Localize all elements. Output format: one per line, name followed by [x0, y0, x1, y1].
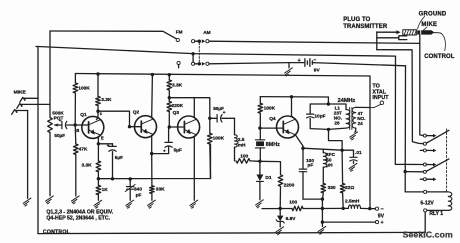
label E [101, 135, 104, 140]
switch K1a top contact [423, 134, 436, 138]
wire Q3 emitter to ground [194, 135, 196, 200]
svg-text:MIKE: MIKE [14, 90, 27, 96]
svg-text:PLUG TO: PLUG TO [343, 17, 370, 23]
switch S1a FM contact [176, 38, 179, 41]
node rail/Q2 collector [151, 73, 154, 76]
svg-text:pF: pF [136, 192, 142, 198]
label FM [176, 29, 183, 34]
label 24MHz [338, 98, 356, 104]
svg-text:9V: 9V [314, 68, 321, 74]
wire tank bottom jog [329, 129, 343, 150]
svg-text:Q1,2,3 - 2N404A OR EQUIV.: Q1,2,3 - 2N404A OR EQUIV. [46, 209, 113, 215]
wire 100pF to ground bus [303, 198, 322, 200]
node RFC junction [340, 149, 343, 152]
node Q1 emitter/5uF [97, 142, 100, 145]
label 6-12V [420, 200, 434, 206]
node row/5uF [111, 177, 114, 180]
svg-text:10pF: 10pF [314, 114, 325, 120]
svg-text:2.5mH: 2.5mH [345, 199, 360, 205]
svg-text:330: 330 [328, 185, 336, 191]
wire crystal node to 2200 [260, 161, 281, 175]
ground (33K) [148, 200, 156, 208]
wire jack row y46 [36, 47, 396, 57]
label Q1 [80, 112, 87, 118]
svg-text:3.3K: 3.3K [172, 83, 183, 89]
svg-text:24MHz: 24MHz [338, 98, 356, 104]
svg-text:22Ω: 22Ω [345, 185, 354, 191]
svg-text:220K: 220K [172, 103, 184, 109]
svg-text:CONTROL: CONTROL [43, 229, 71, 235]
wire S1a output (row A) [209, 41, 420, 43]
label MIKE [14, 90, 27, 96]
svg-text:50: 50 [326, 157, 332, 162]
wire plug tip tail [434, 32, 441, 35]
svg-text:.01: .01 [355, 150, 362, 156]
label c [100, 111, 103, 116]
mike jack hook contact 3 [12, 110, 28, 115]
wire Q1 base lead [75, 124, 88, 126]
node Q1 base [74, 123, 77, 126]
resistor 100K (Q4 base bias) [258, 97, 263, 129]
capacitor .01 (bypass) [342, 150, 357, 163]
leader CONTROL [441, 33, 445, 50]
svg-text:RFC: RFC [325, 152, 335, 157]
svg-text:c: c [100, 111, 103, 116]
node Q1 collector [96, 110, 99, 113]
svg-text:47K: 47K [79, 147, 88, 153]
capacitor 340pF [125, 179, 142, 200]
node tank bottom [327, 128, 330, 131]
svg-text:33K: 33K [156, 187, 165, 193]
label - (battery) [313, 57, 316, 63]
svg-text:1K: 1K [102, 187, 109, 193]
svg-text:GROUND: GROUND [419, 11, 447, 17]
svg-text:–: – [381, 207, 384, 213]
svg-text:RLY 1: RLY 1 [429, 211, 443, 217]
svg-text:Q2: Q2 [133, 109, 140, 115]
pot wiper arrow [54, 123, 61, 126]
ground (Q3 emitter) [190, 200, 198, 208]
node rail/3.3K Q1 [96, 72, 99, 75]
watermark SeekIC.com [403, 230, 453, 240]
potentiometer R1 500K [48, 118, 53, 196]
svg-text:TRANSMITTER: TRANSMITTER [343, 24, 388, 30]
plug prong riser [376, 32, 378, 50]
label 47K [79, 147, 88, 153]
node battery drop/pivot2 [404, 170, 407, 173]
svg-text:6-12V: 6-12V [420, 200, 434, 206]
switch K1b pivot+arm [423, 159, 449, 173]
label CONTROL (plug) [424, 54, 455, 60]
resistor 100K (Q1 base bias) [73, 74, 78, 126]
svg-text:Q4-HEP 52, 2N3644 , ETC.: Q4-HEP 52, 2N3644 , ETC. [46, 216, 110, 222]
resistor 22 ohm [340, 150, 345, 208]
label 33K [156, 187, 165, 193]
wire battery drop x405 [404, 66, 406, 192]
resistor 100K (Q3 output load) [208, 118, 213, 178]
svg-text:–: – [313, 57, 316, 63]
node Q4 base/crystal [258, 126, 261, 129]
ground (D1) [256, 200, 264, 208]
label GROUND [419, 11, 447, 17]
node row/Q1 emitter [97, 177, 100, 180]
label RLY 1 [429, 211, 443, 217]
svg-text:6.8V: 6.8V [286, 216, 297, 222]
wire to pivot2 [405, 171, 423, 173]
node crystal/100 [258, 160, 261, 163]
inductor RFC 50uH [323, 149, 327, 183]
wire Q1 collector to Q2 base [98, 111, 130, 127]
label MIKE (plug) [421, 22, 437, 28]
label 100K (Q4) [264, 106, 276, 112]
crystal Y1 8MHz [255, 128, 264, 161]
resistor 47K (Q1 base to gnd) [74, 125, 79, 196]
svg-text:9V: 9V [378, 214, 385, 220]
transformer core [350, 108, 352, 130]
wire Q4 collector rail [260, 96, 328, 98]
capacitor C5 50uF (Q3 output coupling) [210, 106, 235, 122]
label D1 [265, 175, 271, 181]
plug ring segment [417, 30, 420, 34]
resistor 1K [96, 179, 101, 201]
wire Q2 emitter lead [152, 134, 154, 153]
svg-text:2.5: 2.5 [238, 137, 245, 143]
switch K1a pivot+arm [423, 130, 449, 145]
label 3.3K (Q3) [172, 83, 183, 89]
wire relay top [405, 190, 444, 193]
capacitor C4 5uF (Q2-Q3 coupling) [152, 127, 182, 154]
wire Q3 collector up [194, 98, 196, 120]
wire control bus along bottom [38, 232, 425, 233]
svg-text:100: 100 [240, 154, 248, 160]
switch gang link (dashed) [198, 43, 200, 62]
wire Q1 emitter lead [98, 135, 100, 144]
wire FM line y31 [50, 31, 177, 39]
node Q2 emitter [150, 152, 153, 155]
label 330 [328, 185, 336, 191]
node 22ohm/output row [342, 207, 345, 210]
switch K1b top contact [423, 163, 436, 167]
resistor 220K (Q3 feedback bias) [167, 98, 172, 127]
wire emitter ground row [262, 208, 292, 210]
svg-text:E: E [101, 135, 104, 140]
resistor 3.3K (Q1 collector load) [96, 74, 101, 111]
label + (battery) [298, 58, 301, 64]
resistor 3.3K (Q3 collector load) [167, 75, 172, 98]
wire Q4 emitter to RFC node [295, 135, 303, 148]
svg-text:Q3: Q3 [173, 110, 180, 116]
svg-text:8MHz: 8MHz [266, 142, 280, 148]
switch S1b FM contact [177, 61, 180, 67]
label Q3 [173, 110, 180, 116]
wire plug mike drop to pivot1 [377, 50, 424, 144]
transistor Q4 2N3644 [277, 116, 299, 138]
battery ground stub [288, 63, 290, 68]
label 2200 [284, 182, 295, 188]
svg-text:50μF: 50μF [213, 106, 224, 111]
label 2.5 mH [238, 137, 246, 149]
svg-text:B: B [76, 128, 79, 133]
switch S1a pole [192, 39, 209, 43]
svg-text:μH: μH [326, 163, 333, 168]
svg-text:SeekIC.com: SeekIC.com [403, 230, 453, 240]
svg-text:+: + [107, 143, 110, 148]
wire Q4 base lead [260, 127, 283, 129]
wire mike tip riser x50 [49, 31, 51, 118]
node jack row / S1b [191, 52, 194, 55]
svg-text:2200: 2200 [284, 182, 295, 188]
capacitor 100pF [299, 148, 306, 199]
battery B1 9V [289, 59, 406, 67]
node 100pF/330 [321, 197, 324, 200]
svg-text:Q1: Q1 [80, 112, 87, 118]
inductor L1 secondary 4T [352, 107, 356, 131]
resistor 100 (mod series) [235, 159, 260, 164]
svg-text:5μF: 5μF [115, 155, 123, 160]
leader MIKE [423, 27, 426, 30]
label RFC 50 uH [325, 152, 335, 168]
wire Q1 collector to circle [96, 111, 98, 119]
plug tip [421, 30, 434, 34]
switch K1b lower contact [420, 178, 436, 182]
wire control tip drop [420, 35, 424, 136]
label B [76, 128, 79, 133]
node 330/ground bus [321, 207, 324, 210]
wire row to 2.5mH [322, 207, 343, 209]
resistor 100 (zener feed) [292, 206, 322, 211]
label 22 ohm [345, 185, 354, 191]
wire emitter node to RFC junction [303, 148, 342, 150]
switch S1b pole [192, 55, 209, 66]
transistor Q1 2N404A [82, 116, 104, 138]
label 100 (zener) [289, 200, 297, 206]
capacitor C1 50uF input coupling [54, 118, 75, 138]
label L1 23T NO. 28 [334, 105, 342, 125]
plug body (hatched sleeve) [403, 30, 417, 35]
svg-text:pF: pF [307, 163, 313, 169]
svg-text:+: + [298, 58, 301, 64]
resistor 2200 [278, 175, 283, 209]
label TO XTAL INPUT [372, 84, 389, 102]
node row/340pF [129, 177, 132, 180]
transistor Q3 2N404A [178, 116, 200, 138]
label 3.3K (Q1 emitter) [82, 163, 93, 169]
svg-text:5μF: 5μF [174, 148, 182, 153]
wire common emitter row y179 [98, 144, 210, 179]
ground (47K) [71, 196, 79, 204]
svg-text:50μF: 50μF [54, 133, 65, 138]
label Q4 [269, 116, 276, 122]
note transistor types [46, 209, 113, 221]
svg-text:28: 28 [334, 120, 340, 125]
node rail/tank top [327, 102, 330, 105]
zener diode 6.8V [276, 209, 284, 227]
label 8MHz [266, 142, 280, 148]
label Q2 [133, 109, 140, 115]
wire jack-row drop x395 [395, 56, 423, 164]
label 100 (mod) [240, 154, 248, 160]
transistor Q2 2N404A [135, 116, 157, 138]
terminal TO XTAL INPUT [370, 101, 384, 108]
capacitor 10pF (tank) [307, 104, 329, 129]
wire -9V supply rail [75, 74, 370, 77]
svg-text:Q4: Q4 [269, 116, 276, 122]
plug upper prong [377, 30, 401, 34]
label 100K [78, 85, 90, 91]
inductor L1 primary 23T [328, 104, 349, 129]
svg-text:INPUT: INPUT [372, 95, 389, 101]
ground (L1 secondary) [350, 132, 358, 140]
node Q4 collector/rail [290, 95, 293, 98]
wire relay to control bus [424, 212, 426, 232]
inductor 2.5mH (mod choke) [235, 118, 239, 159]
label 2.5mH (output) [345, 199, 360, 205]
wire jack sleeve / control riser x38 [37, 47, 39, 234]
switch K1a lower contact [420, 149, 436, 153]
label 100 pF [306, 158, 314, 169]
label AM [203, 30, 210, 36]
ground (1K) [94, 200, 102, 208]
node Q3 collector/50uF [208, 117, 211, 120]
svg-text:D1: D1 [265, 175, 271, 181]
svg-text:100K: 100K [78, 85, 90, 91]
ground (.01) [349, 163, 357, 171]
label 3.3K (Q1 collector) [101, 97, 112, 103]
label CONTROL (bottom left) [43, 229, 71, 235]
label 100K (Q3 output) [213, 136, 225, 142]
wire Q4 collector up [292, 97, 296, 119]
svg-text:MIKE: MIKE [421, 22, 437, 28]
node 2200/zener [279, 207, 282, 210]
ground (zener) [276, 227, 284, 235]
label .01 [355, 150, 362, 156]
wire ground bus vertical [321, 199, 323, 226]
resistor 33K (Q2 emitter) [150, 154, 155, 201]
svg-text:340: 340 [134, 187, 142, 193]
wire Q3 base lead [169, 126, 184, 128]
wire jack contact3 to ground [27, 111, 29, 199]
svg-text:100K: 100K [213, 136, 225, 142]
node 3.3K/220K [168, 96, 171, 99]
label 10pF [314, 114, 325, 120]
wire rail corner to tank [327, 97, 329, 104]
terminal +9V [322, 220, 383, 226]
label 220K [172, 103, 184, 109]
node Q2 base [128, 125, 131, 128]
svg-text:100: 100 [289, 200, 297, 206]
label 4T NO. 24 [357, 111, 365, 126]
label 9V (battery) [314, 68, 321, 74]
svg-text:FM: FM [176, 29, 183, 34]
label PLUG TO TRANSMITTER [343, 17, 388, 30]
wire relay bottom [424, 209, 449, 212]
label 500K POT [52, 111, 64, 122]
mike input jack J1 hook contact 1 [20, 97, 38, 102]
svg-text:CONTROL: CONTROL [424, 54, 455, 60]
ground (340pF) [126, 200, 134, 208]
svg-text:AM: AM [203, 30, 210, 36]
capacitor C2 5uF (Q1 emitter bypass) [98, 143, 123, 179]
svg-text:+: + [59, 118, 62, 123]
wire S1b output to battery [209, 63, 289, 64]
svg-text:100K: 100K [264, 106, 276, 112]
svg-text:3.3K: 3.3K [82, 163, 93, 169]
label 6.8V [286, 216, 297, 222]
node Q4 emitter tap [301, 147, 304, 150]
svg-text:+: + [381, 220, 384, 226]
svg-text:24: 24 [358, 121, 364, 126]
label 1K [102, 187, 109, 193]
diode D1 [256, 161, 263, 200]
ground (battery) [285, 68, 293, 76]
terminal -9V [370, 207, 385, 220]
wire Q3 collector feed [169, 98, 210, 119]
node -9V junction [368, 207, 371, 210]
svg-text:+: + [163, 148, 166, 153]
relay mechanical link (dashed) [446, 129, 448, 192]
svg-text:mH: mH [238, 143, 246, 149]
resistor 330 [321, 183, 326, 199]
wire rail drop x370 [369, 76, 371, 209]
wire secondary to XTAL terminal [356, 106, 370, 108]
inductor 2.5mH (output filter) [343, 205, 370, 209]
node Q3 base [168, 125, 171, 128]
wire Q2 collector to rail [152, 75, 154, 119]
leader GROUND [418, 16, 425, 29]
plug lower prong [377, 36, 407, 40]
mike jack hook contact 2 [17, 104, 50, 109]
ground (main bus) [318, 226, 326, 234]
wire Q2 base lead [130, 126, 142, 128]
node ground bus/+9V [321, 220, 324, 223]
ground (jack) [23, 198, 31, 206]
node rail/3.3K Q3 [168, 73, 171, 76]
svg-text:3.3K: 3.3K [101, 97, 112, 103]
relay coil RLY1 [444, 192, 452, 211]
ground (pot) [46, 196, 54, 204]
resistor 3.3K (Q1 emitter) [96, 144, 101, 179]
